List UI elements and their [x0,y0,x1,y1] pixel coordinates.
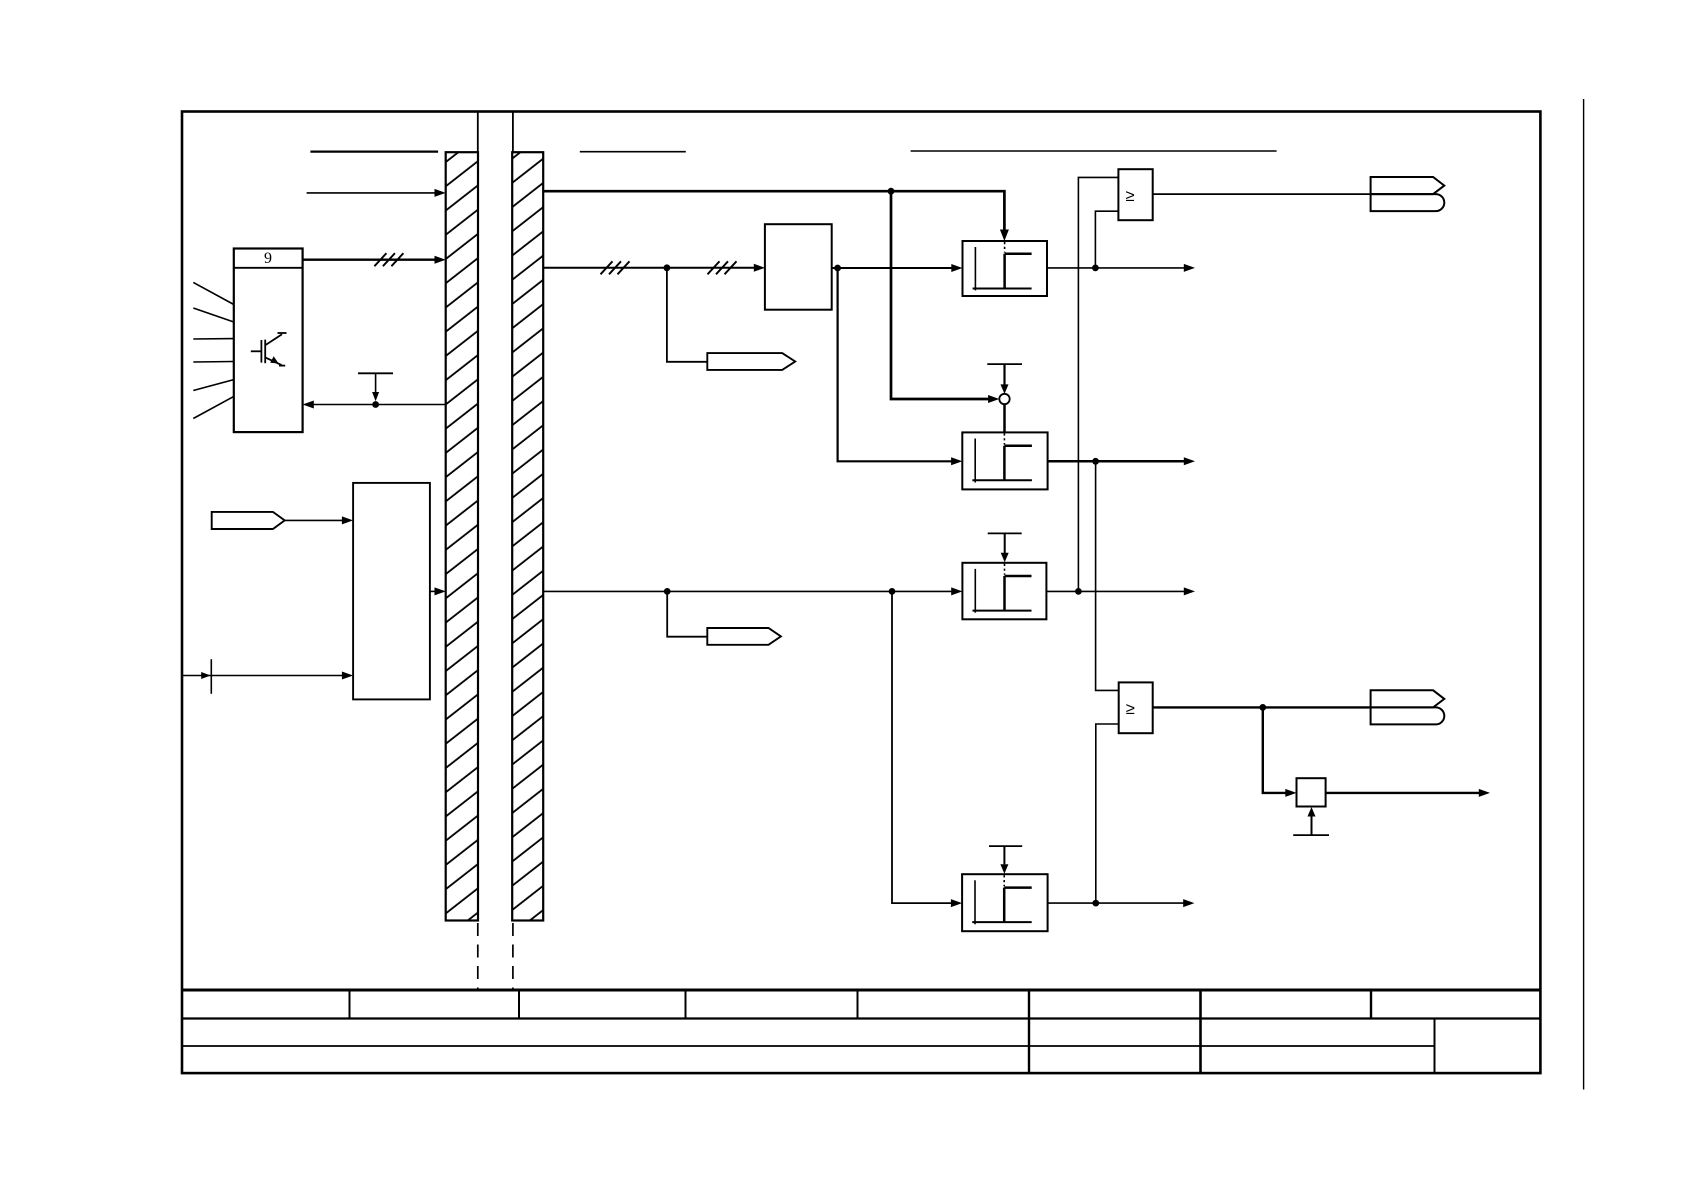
OR gate D1 [1118,169,1152,220]
barrier gap dashed line lower right [512,923,514,989]
parameter tee above B4 [989,846,1022,874]
wire: flag to A1 [285,516,353,524]
sheet connector X2 [1371,690,1445,724]
wire: branch from L3 to signal flag 2 [667,591,707,636]
isolation barrier left bar (hatched) [446,152,478,920]
barrier gap edge line upper left [477,111,479,152]
junction on B2 output [1092,458,1099,465]
wire: A1 output into left barrier [430,587,446,595]
wire: net L3 from barrier to comparator B3 [543,587,962,595]
OR gate D2 [1119,682,1153,733]
junction on B4 output [1092,900,1099,907]
wire: branch down to comparator B2 input [838,268,963,465]
drawing frame border [182,112,1540,1074]
section heading underline left [310,151,438,153]
junction on B3 output to D1 [1075,588,1082,595]
barrier gap dashed line lower left [477,923,479,989]
parameter tee below T1 [1293,807,1329,835]
parameter tee above B3 [988,533,1022,562]
page edge line (right of frame) [1583,99,1585,1090]
wire: net L1 from barrier down into comparator B1 top [543,191,1009,241]
junction on feedback line [372,401,379,408]
wire: T1 output [1326,789,1490,797]
svg-text:≥: ≥ [1126,700,1135,718]
comparator with hysteresis B3 [962,563,1046,620]
inverter circle [999,394,1009,404]
wire: B2 output [1048,457,1195,465]
bus width slashes on gating bus [374,253,403,266]
parameter tee above feedback line [358,373,393,401]
wire: terminal input to A1 [182,659,353,694]
wire: D2 output to sheet connector X2 [1153,706,1371,708]
comparator with hysteresis B4 [962,874,1048,931]
power unit block U1 (with IGBT symbol) [234,249,303,433]
wire: branch from D2 output down to delay block T1 [1263,707,1297,797]
sheet connector X1 [1371,177,1445,211]
wire: gating bus from power unit header into left barrier [303,256,446,264]
gate signal rays [193,282,234,418]
wire: net L2 from barrier into scaling block A2 [543,264,765,272]
comparator with hysteresis B2 [962,432,1047,489]
bus width slashes on L2 group 2 [708,261,737,274]
wire: D1 output to sheet connector X1 [1153,193,1371,195]
signal flag 1 [707,353,795,370]
junction on D2 output [1259,704,1266,711]
wire: branch from L3 down to comparator B4 input [892,591,962,907]
IGBT emitter arrow [270,356,278,363]
barrier gap edge line upper right [512,111,514,152]
junction on L2 [664,264,671,271]
wire: OR gate D2 lower input from B4 output [1096,724,1119,903]
comparator with hysteresis B1 [963,241,1048,296]
wire: OR gate D1 upper input from B3 output [1078,177,1118,591]
wire: branch from L2 to signal flag 1 [667,268,707,362]
wire: B2 output down to OR gate D2 upper input [1096,461,1119,690]
junction on L3 at B4 branch [889,588,896,595]
wire: branch from L1 to inverter circle [891,191,999,403]
wire: top status line into left barrier [307,189,446,197]
isolation barrier right bar (hatched) [512,152,543,920]
IGBT transistor symbol Q1 [251,333,287,366]
input connector flag into A1 [212,512,285,529]
junction on net L1 [888,188,895,195]
junction on L3 at flag branch [664,588,671,595]
wire: B4 output [1048,899,1195,907]
wire: B1 output up to OR gate D1 lower input [1095,211,1118,268]
parameter tee above inverter [987,364,1022,394]
scaling block A2 [765,224,832,310]
junction on B1 output [1092,265,1099,272]
junction after A2 [834,265,841,272]
signal flag 2 [707,628,781,645]
svg-text:≥: ≥ [1125,187,1134,205]
wire: A2 output to comparator B1 input [832,264,963,272]
wire: B3 output [1046,587,1195,595]
bus width slashes on L2 group 1 [601,261,630,274]
delay block T1 [1297,778,1326,806]
svg-text:9: 9 [264,250,272,267]
section heading underline right [911,150,1277,152]
title block [182,990,1540,1073]
control block A1 [353,483,430,700]
wire: inverter output into B2 top [1003,404,1006,432]
wire: B1 output [1047,264,1195,272]
wire: feedback line from barrier to power unit block [303,401,446,409]
section heading underline middle [580,151,686,153]
